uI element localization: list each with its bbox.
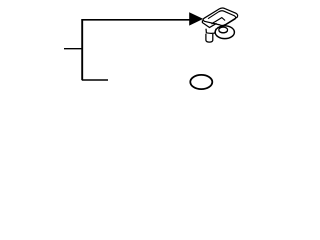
component: window pane fold line [212, 18, 226, 25]
wire: left stub tick [64, 48, 83, 50]
component: ring hole depth arc [219, 31, 228, 33]
component: body inner rim outline [208, 11, 236, 28]
wire: top horizontal run to arrow [81, 19, 190, 21]
component: ring eyelet hole [219, 27, 228, 33]
arrowhead pointing to component [189, 12, 203, 25]
component: sensor body top face [203, 8, 238, 26]
component: mounting foot bracket [206, 29, 216, 34]
connector ellipse (bottom) [190, 75, 212, 89]
component: ring eyelet outer [215, 26, 234, 39]
component: cylindrical boss under foot [206, 34, 213, 42]
component: body bottom silhouette V [202, 20, 216, 27]
wire: vertical bus [81, 19, 83, 80]
wire: bottom horizontal stub [82, 79, 108, 81]
